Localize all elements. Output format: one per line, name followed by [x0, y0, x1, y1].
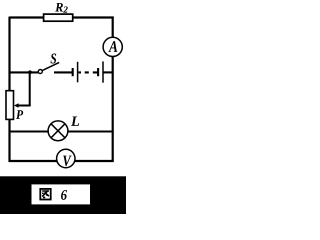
- wire left vertical upper (top corner to pot box): [8, 17, 10, 91]
- label V: [63, 156, 71, 167]
- caption black bar: [0, 176, 126, 214]
- label S: [51, 54, 57, 64]
- caption glyph tu (figure): [40, 189, 50, 200]
- wire top-left segment (left corner to R2 box): [10, 16, 45, 18]
- battery cell1 short plate: [72, 68, 74, 76]
- switch S pivot circle: [38, 70, 42, 74]
- lamp X cross stroke 2: [51, 124, 65, 138]
- wire switch contact to battery: [54, 71, 73, 73]
- wire wiper horizontal: [17, 105, 31, 107]
- rheostat P box: [6, 91, 14, 120]
- caption white box: [32, 184, 91, 204]
- wire right vertical lower (ammeter to bottom corner): [112, 56, 114, 162]
- node junction dot: [28, 70, 32, 74]
- label P: [16, 110, 23, 119]
- wire bottom right (voltmeter to corner): [75, 160, 114, 162]
- battery cell2 short plate: [97, 68, 99, 76]
- lamp X cross stroke 1: [51, 124, 65, 138]
- label R2: [55, 3, 63, 12]
- label A: [108, 41, 117, 52]
- wire left vertical lower (pot box to bottom corner): [8, 119, 10, 162]
- voltmeter circle: [57, 149, 75, 167]
- wire right vertical upper (top corner to ammeter): [112, 17, 114, 38]
- resistor R2: [44, 14, 73, 21]
- wiper arrowhead: [14, 103, 19, 107]
- lamp L circle: [48, 121, 68, 141]
- battery cell2 long plate: [102, 61, 104, 82]
- wire dashed battery middle: [78, 71, 97, 73]
- switch S blade: [42, 62, 59, 70]
- wire battery row left (left wire to switch pivot): [9, 71, 39, 73]
- ammeter A circle: [103, 37, 122, 56]
- label L: [71, 117, 79, 126]
- wire bottom left (corner to voltmeter): [9, 160, 57, 162]
- wire branch vertical to wiper: [29, 72, 31, 105]
- battery cell1 long plate: [77, 62, 79, 83]
- wire lamp row right: [67, 131, 113, 133]
- wire battery to right wire: [104, 71, 114, 73]
- wire lamp row left: [9, 131, 49, 133]
- wire top-right segment (R2 box to right corner): [73, 16, 114, 18]
- caption text 6: [61, 190, 67, 200]
